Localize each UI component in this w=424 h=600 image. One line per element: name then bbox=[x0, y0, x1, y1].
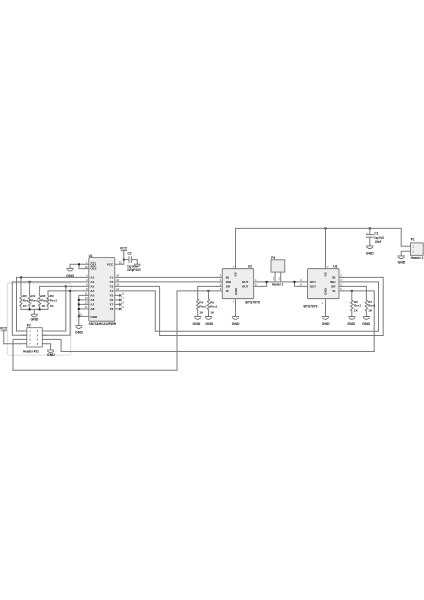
svg-text:GND: GND bbox=[234, 287, 238, 295]
svg-text:INH: INH bbox=[330, 280, 335, 284]
resistor R4 bbox=[197, 299, 199, 316]
svg-text:U2: U2 bbox=[248, 265, 252, 269]
U3 INH stub bbox=[339, 281, 343, 283]
svg-text:1: 1 bbox=[322, 301, 324, 305]
svg-text:IN: IN bbox=[332, 276, 335, 280]
P2 pin6 stub bbox=[42, 338, 46, 340]
U3 OUT bottom stub merge bbox=[295, 282, 308, 287]
U2 VS supply stem bbox=[235, 228, 237, 268]
svg-text:P3: P3 bbox=[271, 256, 275, 260]
resistor R6 bbox=[351, 300, 353, 316]
svg-text:R0: R0 bbox=[23, 294, 27, 298]
top supply rail bbox=[236, 228, 411, 246]
U2 IS stub bbox=[218, 290, 222, 292]
capacitor C2 bbox=[129, 257, 131, 263]
capacitor C1 plates bbox=[366, 235, 373, 238]
wire U2 SR to R4 bbox=[198, 286, 218, 299]
U3 VS supply stem bbox=[325, 228, 327, 268]
svg-text:2: 2 bbox=[278, 277, 280, 281]
junction A6 bbox=[78, 299, 80, 301]
junction A2/R pullup bbox=[29, 281, 31, 283]
resistor R2 bbox=[28, 282, 30, 310]
svg-text:INH: INH bbox=[226, 280, 231, 284]
P2 pin5 stub bbox=[21, 338, 27, 340]
svg-text:GND: GND bbox=[398, 261, 406, 265]
junction A1/R pullup bbox=[20, 276, 22, 278]
wire P2 pin6 to lower rail bbox=[46, 339, 61, 351]
svg-text:1K: 1K bbox=[368, 309, 373, 313]
ground symbol at P1 bbox=[398, 256, 405, 259]
wire U1 VCC pin to VCC rail bbox=[115, 260, 124, 265]
P3 lead pin1 bbox=[274, 272, 276, 282]
IC U1 body bbox=[89, 258, 115, 322]
svg-text:OUT: OUT bbox=[242, 285, 249, 289]
svg-text:VCC: VCC bbox=[0, 327, 8, 331]
ground symbol at U3 bbox=[322, 317, 329, 320]
svg-text:5: 5 bbox=[122, 301, 124, 305]
svg-text:VS: VS bbox=[323, 272, 327, 276]
svg-text:Res1: Res1 bbox=[368, 304, 376, 308]
U1 left pin stub A1 row (wire to resistor net) bbox=[17, 277, 89, 331]
svg-text:GND: GND bbox=[362, 322, 370, 326]
wire P2 pin5 to bottom rail bbox=[13, 339, 21, 370]
svg-text:Y4: Y4 bbox=[109, 289, 113, 293]
P2 pin4 stub bbox=[42, 334, 46, 336]
svg-text:Header 2: Header 2 bbox=[272, 283, 283, 287]
svg-text:R3: R3 bbox=[50, 294, 54, 298]
junction U3 VS on rail bbox=[325, 227, 327, 229]
junction U2 OUT merge bbox=[266, 281, 268, 283]
junction U3 OUT merge bbox=[294, 281, 296, 283]
svg-text:GND: GND bbox=[323, 287, 327, 295]
ground symbol at R4 bbox=[194, 317, 201, 320]
svg-text:Res1: Res1 bbox=[354, 304, 362, 308]
wire Y2 to U2 INH bbox=[115, 281, 218, 283]
wire U3 SR to R7 bbox=[343, 286, 366, 300]
svg-text:GND: GND bbox=[347, 322, 355, 326]
svg-text:P1: P1 bbox=[411, 237, 415, 241]
wire Y1 to U2 IN bbox=[115, 276, 218, 278]
svg-text:100uF: 100uF bbox=[375, 240, 382, 244]
wire R5 tap bbox=[208, 291, 210, 299]
svg-text:BTS7970: BTS7970 bbox=[245, 301, 260, 305]
svg-text:Y2: Y2 bbox=[109, 280, 113, 284]
VCC power port bottom left bbox=[1, 331, 6, 344]
svg-text:7: 7 bbox=[122, 296, 124, 300]
wire P2 pin8 to ground bbox=[46, 344, 50, 350]
resistor R8 bbox=[38, 286, 40, 309]
bottom rail P2 pin5 to U2 IS bbox=[13, 369, 177, 371]
svg-text:OUT: OUT bbox=[310, 280, 317, 284]
wire rail to ground bbox=[33, 309, 35, 314]
wire A7 stub bbox=[79, 303, 89, 305]
capacitor C1 lead top bbox=[369, 228, 371, 234]
svg-text:VCC: VCC bbox=[120, 246, 128, 250]
Y5 stub with no-connect bbox=[115, 294, 120, 296]
wire A5-A8 ground tie vertical bbox=[79, 295, 89, 316]
header P1 body bbox=[411, 243, 424, 255]
junction OE1/OE2 bbox=[78, 263, 80, 265]
svg-text:Res1: Res1 bbox=[199, 305, 207, 309]
svg-text:VS: VS bbox=[234, 272, 238, 276]
svg-text:OE2: OE2 bbox=[90, 267, 96, 271]
svg-text:A3: A3 bbox=[90, 285, 94, 289]
wire A4 row bbox=[48, 290, 89, 292]
junction A3 branch bbox=[65, 285, 67, 287]
svg-text:Y1: Y1 bbox=[109, 276, 113, 280]
ground symbol at C2 bbox=[134, 264, 140, 267]
svg-text:Header 2: Header 2 bbox=[411, 256, 424, 260]
VCC power port above U1 bbox=[121, 251, 126, 260]
svg-text:1K: 1K bbox=[199, 311, 204, 315]
svg-text:1K: 1K bbox=[50, 304, 55, 308]
ground symbol at U2 bbox=[232, 317, 239, 320]
svg-text:Res1: Res1 bbox=[50, 299, 58, 303]
junction A8 bbox=[78, 308, 80, 310]
svg-text:Header 4X2: Header 4X2 bbox=[23, 349, 39, 353]
U2 OUT bottom stub merge bbox=[254, 282, 267, 287]
svg-text:1K: 1K bbox=[31, 304, 36, 308]
header P3 body bbox=[271, 260, 285, 272]
svg-text:1K: 1K bbox=[41, 304, 46, 308]
junction A7 bbox=[78, 303, 80, 305]
P2 pin2 stub bbox=[42, 330, 46, 332]
svg-text:7: 7 bbox=[233, 265, 235, 269]
svg-text:A8: A8 bbox=[90, 307, 94, 311]
wire C2 to ground bbox=[131, 260, 137, 264]
U2 GND stem bbox=[235, 299, 237, 317]
svg-text:A5: A5 bbox=[90, 294, 94, 298]
svg-text:Y8: Y8 bbox=[109, 307, 113, 311]
svg-text:SN74AHC244PWR: SN74AHC244PWR bbox=[89, 322, 117, 326]
svg-text:OUT: OUT bbox=[242, 280, 249, 284]
resistor R3 bbox=[47, 291, 49, 310]
svg-text:1K: 1K bbox=[354, 309, 359, 313]
wire GND tie down bbox=[78, 316, 80, 325]
junction rail R8 bbox=[39, 308, 41, 310]
P2 pin1 stub bbox=[21, 330, 27, 332]
Y7 stub with no-connect bbox=[115, 303, 120, 305]
svg-text:P2: P2 bbox=[27, 324, 31, 328]
svg-text:C1: C1 bbox=[374, 231, 378, 235]
svg-text:7: 7 bbox=[327, 265, 329, 269]
svg-text:A7: A7 bbox=[90, 303, 94, 307]
svg-text:GND: GND bbox=[31, 318, 39, 322]
wire A8 stub bbox=[79, 308, 89, 310]
ground symbol resistor rail bbox=[31, 314, 38, 317]
blanket region around input section bbox=[7, 283, 71, 355]
wire P1 pin2 to ground bbox=[401, 251, 410, 255]
U2 IN stub bbox=[218, 276, 222, 278]
U3 IS stub bbox=[339, 290, 343, 292]
wire OE2 tie to OE1 bbox=[79, 264, 89, 268]
svg-text:IN: IN bbox=[226, 276, 229, 280]
wire Y4 to U3 INH (loop) bbox=[115, 282, 379, 331]
ground symbol at R6 bbox=[348, 317, 355, 320]
wire OE1 to ground tie bbox=[70, 264, 89, 268]
U2 OUT top stub bbox=[254, 281, 259, 283]
U3 GND stem bbox=[325, 299, 327, 317]
svg-text:Y7: Y7 bbox=[109, 303, 113, 307]
wire U3 IS to lower rail bbox=[343, 291, 374, 352]
svg-text:9: 9 bbox=[122, 292, 124, 296]
resistor R5 bbox=[207, 299, 209, 316]
bottom rail P2 pin6 to U3 IS bbox=[61, 351, 374, 353]
junction IS/R6 bbox=[351, 290, 353, 292]
wire R6 tap bbox=[351, 291, 353, 300]
Y6 stub with no-connect bbox=[115, 299, 120, 301]
junction VCC node bbox=[123, 259, 125, 261]
U3 IN stub bbox=[339, 276, 343, 278]
svg-text:OUT: OUT bbox=[310, 285, 317, 289]
wire VCC node to C2 bbox=[124, 259, 129, 261]
junction rail R2 bbox=[29, 308, 31, 310]
P2 pin3 stub bbox=[21, 334, 27, 336]
svg-text:GND: GND bbox=[322, 322, 330, 326]
half-bridge driver U2 body bbox=[222, 269, 254, 299]
wire A4 branch down to header pin4 bbox=[42, 291, 70, 335]
svg-text:A6: A6 bbox=[90, 298, 94, 302]
svg-text:Y6: Y6 bbox=[109, 298, 113, 302]
P2 pin8 stub bbox=[42, 343, 46, 345]
P2 pin7 stub bbox=[21, 343, 27, 345]
svg-text:3: 3 bbox=[122, 305, 124, 309]
wire A3 row bbox=[40, 285, 89, 287]
svg-text:R2: R2 bbox=[31, 294, 35, 298]
Y8 stub with no-connect bbox=[115, 308, 120, 310]
svg-text:1K: 1K bbox=[210, 311, 215, 315]
svg-text:GND: GND bbox=[47, 353, 55, 357]
svg-text:GND: GND bbox=[90, 315, 98, 319]
svg-text:Y3: Y3 bbox=[109, 285, 113, 289]
ground symbol at OE pins bbox=[67, 268, 74, 271]
ground symbol at R7 bbox=[363, 317, 370, 320]
svg-text:R8: R8 bbox=[41, 294, 45, 298]
svg-text:Res1: Res1 bbox=[31, 299, 39, 303]
svg-text:A1: A1 bbox=[90, 276, 94, 280]
ground symbol at C1 bbox=[366, 246, 373, 249]
svg-text:GND: GND bbox=[232, 322, 240, 326]
wire A6 stub bbox=[79, 299, 89, 301]
half-bridge driver U3 body bbox=[308, 269, 340, 299]
ground symbol at P2 pin8 bbox=[47, 350, 54, 353]
wire resistor common rail bbox=[21, 308, 48, 310]
svg-text:BTS7970: BTS7970 bbox=[304, 305, 318, 309]
wire Y3 to U3 IN (loop) bbox=[115, 277, 383, 335]
wire U2 OUT bus to U3 OUT bbox=[258, 281, 303, 283]
junction IS/R5 bbox=[208, 290, 210, 292]
wire VCC to P2 pin7 bbox=[4, 343, 22, 345]
junction C1 on rail bbox=[369, 227, 371, 229]
svg-text:IS: IS bbox=[226, 289, 229, 293]
U2 SR stub bbox=[218, 285, 222, 287]
svg-text:1: 1 bbox=[273, 277, 275, 281]
U3 SR stub bbox=[339, 285, 343, 287]
svg-text:A4: A4 bbox=[90, 289, 94, 293]
resistor R7 bbox=[365, 300, 367, 316]
capacitor C1 lead bottom bbox=[369, 237, 371, 245]
svg-text:100pF/16V: 100pF/16V bbox=[127, 268, 141, 272]
svg-text:Res1: Res1 bbox=[210, 305, 218, 309]
svg-text:GND: GND bbox=[205, 322, 213, 326]
junction A4 branch bbox=[69, 290, 71, 292]
svg-text:Y5: Y5 bbox=[109, 294, 113, 298]
U2 INH stub bbox=[218, 281, 222, 283]
header P2 body bbox=[27, 328, 43, 347]
wire A2 row to header pin3 bbox=[12, 282, 89, 335]
svg-text:GND: GND bbox=[193, 322, 201, 326]
svg-text:GND: GND bbox=[366, 251, 374, 255]
svg-text:GND: GND bbox=[75, 330, 83, 334]
wire A3 branch down to header pin2 bbox=[42, 286, 66, 331]
svg-text:IS: IS bbox=[333, 289, 336, 293]
svg-text:C2: C2 bbox=[128, 252, 132, 256]
ground symbol below U1 bbox=[75, 326, 82, 329]
svg-text:U3: U3 bbox=[333, 265, 337, 269]
P3 lead pin2 bbox=[280, 272, 282, 282]
junction GND pin tie bbox=[78, 315, 80, 317]
svg-text:VCC: VCC bbox=[107, 262, 114, 266]
svg-text:A2: A2 bbox=[90, 280, 94, 284]
svg-text:1: 1 bbox=[233, 300, 235, 304]
U3 OUT top stub bbox=[303, 281, 308, 283]
svg-text:1K: 1K bbox=[23, 304, 28, 308]
resistor R0 bbox=[20, 277, 22, 309]
wire U2 IS to bottom loop bbox=[177, 291, 218, 370]
ground symbol at R5 bbox=[205, 317, 212, 320]
svg-text:U1: U1 bbox=[89, 254, 93, 258]
